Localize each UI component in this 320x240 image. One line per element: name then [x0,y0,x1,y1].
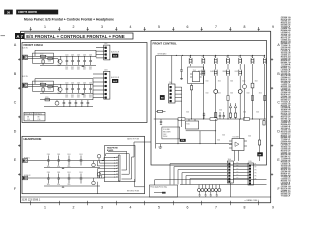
headphone jack contact 2 [114,159,118,161]
keyboard top bus wire [156,55,265,57]
sheet title box [24,33,133,39]
svg-text:2202: 2202 [89,67,92,69]
svg-text:36: 36 [7,10,11,14]
cinch row1 upper wire [35,50,96,56]
svg-text:3104: 3104 [186,112,189,114]
cinch row2 input jack AUX IN [22,75,28,88]
hp row1 capacitor C1 [47,154,50,166]
svg-text:P1: P1 [255,164,257,166]
svg-text:100n: 100n [89,97,92,99]
svg-text:6: 6 [187,205,189,209]
svg-text:2301: 2301 [67,154,70,156]
svg-text:3104: 3104 [230,93,233,95]
svg-text:PROG: PROG [198,71,202,73]
connector 1102 outline [104,43,110,60]
cinch row3 capacitor C2 [69,100,72,107]
connector 1103 pin 6 [105,93,107,95]
cinch row3 capacitor C5 [87,100,90,107]
svg-text:P4: P4 [255,173,257,175]
transistor 7106 [214,90,218,94]
svg-text:2202: 2202 [77,95,80,97]
cinch row1 capacitor C3 [77,55,80,65]
svg-text:4: 4 [130,25,132,29]
connector 1104 outline [227,159,233,183]
cinch row1 capacitor value labels [65,67,92,71]
key switch PLAY [189,55,192,66]
svg-text:T71654 6-F: T71654 6-F [281,195,291,198]
connector 1103 pin 7 [105,97,107,99]
cinch row2 capacitor C4 [83,83,86,94]
HEADPHONE BOARD sub-box [105,146,136,182]
cinch row2 series resistor R1 [40,82,46,86]
svg-text:3104: 3104 [218,93,221,95]
sheet title line [24,18,114,22]
hp row2 ground bus [44,186,100,187]
junction dots on middle bus [181,118,253,121]
svg-text:2301: 2301 [47,154,50,156]
cinch row1 signal wire R [28,58,58,60]
svg-text:100n: 100n [65,69,68,71]
svg-text:3104: 3104 [230,81,233,83]
svg-text:100n: 100n [57,184,60,186]
svg-text:3104: 3104 [206,93,209,95]
cinch row2 junction dots [67,83,91,86]
wire to front control upper [132,142,151,157]
svg-text:100n: 100n [47,166,50,168]
connector 1105 pin 2 [249,168,251,170]
svg-text:3104: 3104 [222,135,225,137]
cinch row1 series resistor R2 [48,58,53,63]
svg-text:7: 7 [215,25,217,29]
series resistor 3113 on bus [178,118,185,121]
svg-text:2202: 2202 [83,95,86,97]
hp row2 transistor Q2 [97,172,101,178]
svg-text:100n: 100n [47,184,50,186]
key switch DISPLAY [235,66,242,119]
series resistor 3115 on bus [244,118,250,121]
connector 1105 pin 1 [249,165,251,167]
key switch PROG [198,66,205,119]
HEADPHONE board outline [22,136,145,193]
svg-text:100n: 100n [57,166,60,168]
svg-text:ENCODER: ENCODER [163,131,171,133]
part reference list column [281,16,291,198]
settings table outline [24,112,45,121]
frame right edge [270,31,272,203]
svg-text:2202: 2202 [71,67,74,69]
cinch row1 ground symbol [82,65,85,66]
svg-text:F: F [278,187,280,191]
wire down to box bottom [96,182,98,194]
transistor 7107 [238,90,242,94]
svg-text:100n: 100n [77,97,80,99]
wires from connector 1104 to headphone [170,164,227,185]
cinch row1 ground bus [40,64,96,66]
hp row1 transistor Q1 [92,161,96,167]
connector 1101 pin 3 [170,93,172,95]
note bottom right [245,199,259,202]
hp row1 capacitor C3 [67,154,70,166]
svg-text:FRONT CINCH: FRONT CINCH [24,43,43,47]
key switch PREV [251,55,254,66]
connector 1104 pin 1 [228,163,230,165]
test pad stubs [199,185,219,189]
svg-text:7102 KEY: 7102 KEY [232,137,239,139]
drawing number bottom left [22,199,41,202]
svg-text:5: 5 [158,205,160,209]
test pad 7 [218,189,221,192]
capacitor 2115 on bus [203,113,205,119]
junction dots lower bus [200,142,216,145]
resistor 3106 vertical [190,84,192,119]
hp row1 ground bus [44,168,100,169]
cinch row1 capacitor C2 [71,55,74,65]
wire drop x178 [177,119,180,144]
headphone jack contact 8 [114,176,118,178]
svg-text:4: 4 [130,205,132,209]
IC feed wires [216,119,240,161]
svg-text:KEY: KEY [236,165,239,167]
cinch row1 input filter shield box [33,53,54,63]
test pad 2 [201,189,204,192]
right ruler row letters [277,43,280,191]
connector 1105 pin 3 [249,171,251,173]
svg-text:3203: 3203 [48,61,51,63]
cinch row1 bias resistor [42,59,44,66]
junction ground mark [159,144,163,149]
wire encoder to IC [186,131,216,144]
tag FRONT AUX upper [111,51,120,58]
cinch row1 signal wire L [28,55,97,57]
key switch NEXT [238,55,241,66]
hp row2 capacitor C1 [47,172,50,184]
hp row2 signal wire [28,177,105,179]
svg-text:RETORNO FONE: RETORNO FONE [127,191,139,193]
cinch row2 capacitor C2 [71,83,74,94]
svg-text:2202: 2202 [83,67,86,69]
svg-text:8: 8 [244,205,246,209]
connector 1102 wires [96,48,105,58]
FRONT CONTROL label [153,41,178,45]
key switch REC [214,55,217,66]
svg-text:KEY: KEY [236,177,239,179]
headphone jack contact 1 [114,156,118,158]
svg-text:2102: 2102 [163,134,167,136]
headphone jack contact 5 [114,168,118,170]
connector 1104 pin 7 [228,180,230,182]
cinch row2 transistor [57,84,62,95]
cinch row1 capacitor C5 [89,55,92,65]
svg-text:7: 7 [215,205,217,209]
routing wire drop into notes box [154,180,156,185]
svg-text:5: 5 [158,25,160,29]
test pad ground marks [199,192,218,197]
cinch row3 transistor [55,100,59,105]
return routing loop inner [108,151,127,170]
cinch row1 transistor [57,56,62,67]
hp row2 jack FONE R [23,175,32,180]
svg-text:3104: 3104 [259,93,262,95]
svg-text:P5: P5 [255,176,257,178]
cinch row2 series resistor R2 [48,86,53,91]
svg-text:7103: 7103 [193,70,197,72]
svg-text:Mono Painel: E/S Frontal + Con: Mono Painel: E/S Frontal + Controle Fron… [24,18,114,22]
cinch row3 capacitor C4 [81,100,84,107]
cinch row1 capacitor C4 [83,55,86,65]
test pad 4 [208,189,211,192]
display sub-board dashed box [188,67,204,84]
svg-text:3104: 3104 [242,81,245,83]
ribbon wire net labels [236,162,239,179]
svg-text:VOL: VOL [181,140,184,142]
hp row2 transistor Q1 [92,178,96,185]
header page-number block [4,10,13,15]
svg-text:FRONT CONTROL: FRONT CONTROL [153,41,178,45]
cinch row3 ground bus [44,106,93,108]
rotary encoder dashed box [162,127,180,139]
svg-text:2301: 2301 [57,154,60,156]
svg-text:2301: 2301 [57,172,60,174]
frame inner bottom line [21,196,271,198]
connector 1103 pin 3 [105,81,107,83]
svg-text:C10: C10 [27,119,30,121]
svg-text:1103: 1103 [104,69,108,71]
cinch row2 ground symbol [82,93,85,94]
misc value labels control box [186,81,262,142]
frame left edge [20,31,22,203]
display IC 7103 [190,70,202,82]
svg-text:3104: 3104 [255,81,258,83]
diode arrows 6101 6102 [229,103,237,119]
svg-text:PUSH: PUSH [163,136,167,138]
cinch row2 upper wire [35,79,93,85]
capacitor pair on bus [219,112,225,119]
stair wires from FONE R [97,169,114,178]
bottom ruler column numbers [44,205,274,209]
FRONT CONTROL board outline [151,41,267,166]
svg-text:3201: 3201 [40,54,43,56]
middle bus wire [154,118,266,120]
svg-text:3139 123 5936.1: 3139 123 5936.1 [22,199,41,202]
hp row1 capacitor C4 [79,154,82,166]
settings table body text [27,117,40,121]
connector 1105 pin 6 [249,180,251,182]
resistor 3119 [264,96,266,101]
connector 1105 pin 7 [249,182,251,184]
headphone jack contact 7 [114,173,118,175]
connector 1104 pin 4 [228,172,230,174]
stair wires from FONE L [97,158,114,166]
svg-text:2202: 2202 [89,95,92,97]
routing wire lower [180,184,267,186]
connector 1103 pin 5 [105,89,107,91]
svg-text:2301: 2301 [47,172,50,174]
connector 1103 pin 1 [105,73,107,75]
connector 1101 pin 5 [170,100,172,102]
resistor 3104 [251,66,254,119]
svg-text:100n: 100n [65,97,68,99]
connector 1102 pin 1 [105,47,107,49]
svg-text:1105: 1105 [248,161,252,163]
notes box [150,185,178,197]
connector 1102 pin 4 [105,57,107,59]
connector 1101 pin 2 [170,90,172,92]
cinch row1 series resistor R1 [40,54,46,58]
connector 1101 pin 4 [170,97,172,99]
cinch row2 capacitor value labels [65,95,92,99]
connector 1104 pin 3 [228,169,230,171]
cinch row2 bias resistor [42,87,44,94]
test pad 3 [204,189,207,192]
svg-text:3104: 3104 [248,136,251,138]
connector 1104 pin 6 [228,178,230,180]
svg-text:3: 3 [101,205,103,209]
svg-text:100n: 100n [67,184,70,186]
svg-text:8: 8 [244,25,246,29]
connector 1103 wires [93,74,105,100]
key switch STOP [202,55,205,66]
svg-text:3104: 3104 [217,140,220,142]
svg-text:2202: 2202 [77,67,80,69]
fold mark left margin [1,35,6,37]
hp row2 capacitor value labels [47,184,71,186]
connector 1103 pin 4 [105,85,107,87]
test pad 6 [215,189,218,192]
ribbon wires between 1104 and 1105 [233,164,249,179]
svg-text:1: 1 [44,205,46,209]
wire right drop [264,66,266,119]
svg-text:KEY: KEY [236,162,239,164]
hp row1 jack FONE L [23,158,31,163]
series resistor 3114 on bus [210,118,217,121]
tag 1105 [257,152,263,156]
svg-text:P2: P2 [255,167,257,169]
cinch row3 signal wire [40,99,93,101]
top ruler column numbers [44,25,274,29]
svg-text:8B: 8B [38,117,40,119]
encoder feed wire [181,119,183,127]
junction dots on keyboard bus [176,54,265,57]
resistor 3120 [258,119,260,161]
hp row1 capacitor C2 [57,154,60,166]
settings table header text [25,112,42,115]
headphone jack contact 3 [114,162,118,164]
resistor 3121 near left bus [156,110,166,112]
notes box symbol [154,192,166,194]
header model bar [16,10,58,15]
IC 7102 [229,137,247,151]
svg-text:100n: 100n [71,97,74,99]
svg-text:KEY: KEY [236,168,239,170]
svg-text:AUX IN: AUX IN [22,47,28,50]
hp row2 capacitor C3 [67,172,70,184]
svg-text:3104: 3104 [206,81,209,83]
capacitor below bus [160,119,162,124]
frame top ruler line [21,30,271,32]
svg-text:2301: 2301 [67,172,70,174]
svg-text:1102: 1102 [104,43,108,45]
svg-text:3104: 3104 [247,93,250,95]
svg-text:3104: 3104 [243,112,246,114]
key switch OPEN [263,55,266,66]
test pad 5 [211,189,214,192]
svg-text:REPE: REPE [223,71,227,73]
ground symbol below C2104 [180,79,183,80]
hp row1 capacitor value labels [47,166,71,168]
FRONT CINCH label [24,43,43,47]
wire bus to connector 1101 [171,55,173,84]
cinch row1 junction dots [67,55,91,58]
svg-text:P3: P3 [255,170,257,172]
svg-text:2: 2 [73,25,75,29]
headphone jack contact 4 [114,165,118,167]
svg-text:9: 9 [272,205,274,209]
cinch row2 ground bus [40,92,93,94]
hp row2 capacitor C4 [79,172,82,184]
svg-text:9: 9 [272,25,274,29]
svg-text:3213: 3213 [45,97,49,99]
connector 1105 pin 5 [249,177,251,179]
net label top right [127,138,139,141]
tag 1101 [160,95,165,100]
svg-text:100n: 100n [83,69,86,71]
svg-text:100n: 100n [71,69,74,71]
capacitor C2104 [180,56,183,79]
svg-text:E/S FRONTAL + CONTROLE FRONTAL: E/S FRONTAL + CONTROLE FRONTAL + FONE [26,34,125,39]
svg-text:1101: 1101 [169,82,173,84]
resistor 3117 [227,96,229,101]
connector 1104 pin 2 [228,166,230,168]
svg-text:6: 6 [187,25,189,29]
svg-text:7105: 7105 [186,123,190,125]
svg-text:a. PAINEL 5936.1: a. PAINEL 5936.1 [245,199,259,202]
cinch row2 input filter shield box [33,81,54,91]
svg-text:3104: 3104 [219,110,222,112]
net label bottom right [127,191,139,193]
test pad 1 [198,189,201,192]
hp row1 signal wire [28,160,105,162]
svg-text:CDR775 CDR765: CDR775 CDR765 [18,11,38,14]
key switch PAUSE [226,55,229,66]
connector 1102 pin 3 [105,53,107,55]
connector 1103 pin 2 [105,77,107,79]
cinch row2 capacitor C5 [89,83,92,94]
routing wire upper [155,179,267,181]
right ruler tick marks [271,58,274,175]
connector 1102 pin 2 [105,50,107,52]
cinch row1 capacitor C1 [65,55,68,65]
connector 1105 pin 4 [249,174,251,176]
connector 1101 wires [175,87,182,119]
key switch SHUFFLE [210,66,217,119]
resistor stack 3116 [215,113,217,118]
resistor 3118 [251,96,253,101]
connector 1101 outline [169,82,175,103]
frame bottom ruler line [21,202,271,204]
svg-text:3203: 3203 [48,89,51,91]
svg-text:2202: 2202 [65,67,68,69]
tag encoder [180,139,186,142]
svg-text:2301: 2301 [79,154,82,156]
sheet id box A7 [15,33,24,39]
junction dot encoder wire [214,129,217,132]
cinch row2 signal wire L [28,83,94,85]
svg-text:VOLUME: VOLUME [163,129,170,131]
left ruler tick marks [18,58,21,175]
cinch row2 signal wire R [28,86,58,88]
cinch row1 input jack AUX IN [22,47,28,60]
connector 1105 outline [248,161,254,185]
